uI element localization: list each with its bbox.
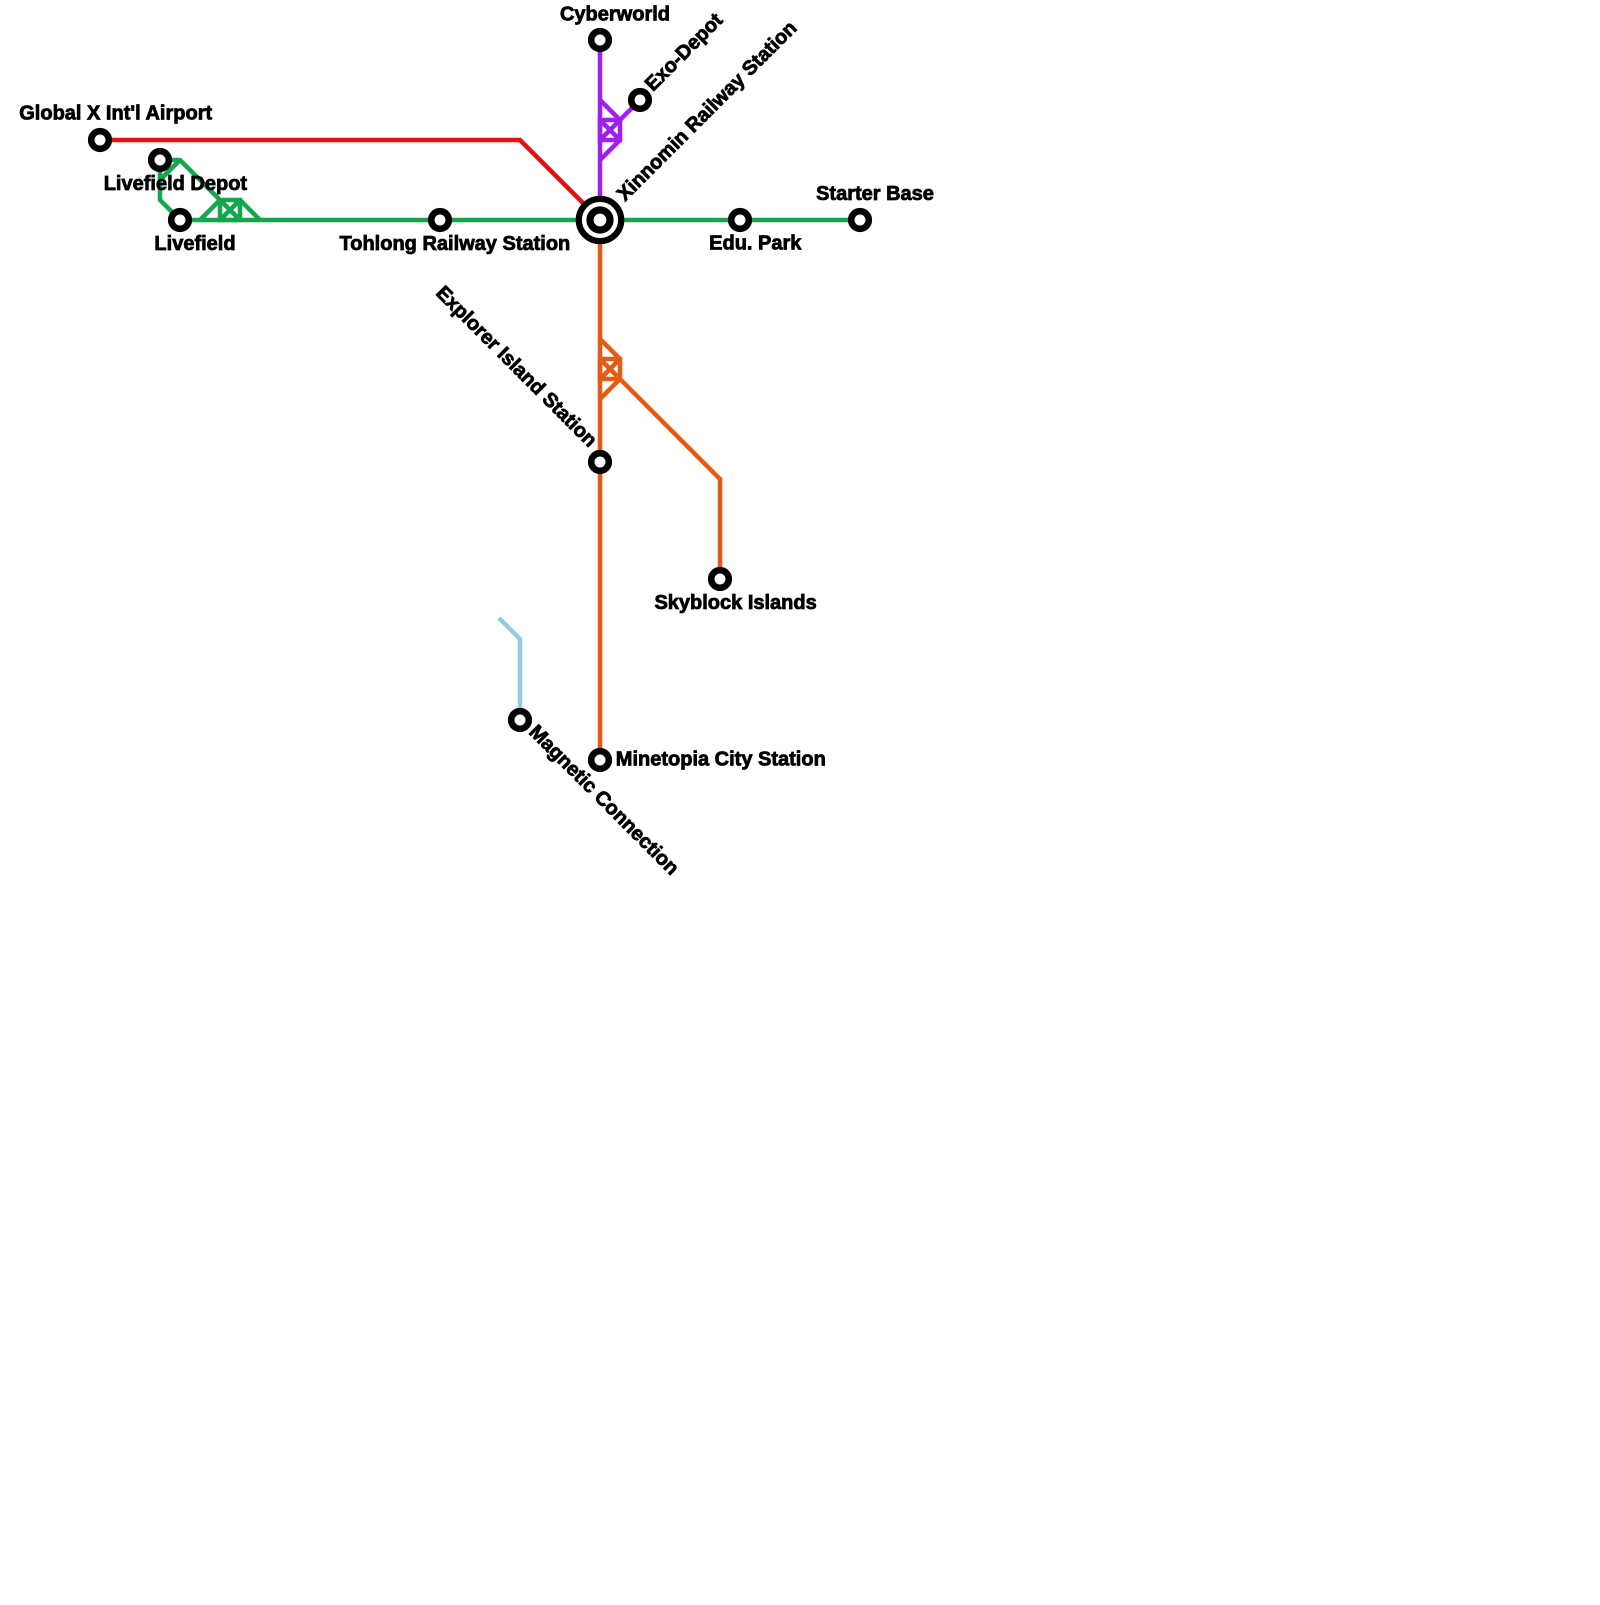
station Magnetic Connection xyxy=(511,711,529,729)
orange yard top flare xyxy=(600,339,620,359)
station Edu. Park xyxy=(731,211,749,229)
green yard right flare xyxy=(240,200,260,220)
station Livefield xyxy=(171,211,189,229)
svg-text:Explorer Island Station: Explorer Island Station xyxy=(431,282,601,452)
purple yard bottom flare xyxy=(600,140,620,160)
svg-text:Edu. Park: Edu. Park xyxy=(709,233,802,255)
station Tohlong Railway Station xyxy=(431,211,449,229)
orange yard bottom flare xyxy=(600,379,620,399)
station Livefield Depot xyxy=(151,151,169,169)
green depot stub to yard branch xyxy=(160,160,220,200)
purple branch to Exo-Depot xyxy=(620,100,640,120)
station Cyberworld xyxy=(591,31,609,49)
green branch Livefield to Livefield Depot xyxy=(160,160,180,220)
svg-text:Skyblock Islands: Skyblock Islands xyxy=(654,592,816,614)
light blue Magnetic Connection line xyxy=(499,618,520,720)
green yard box with X xyxy=(220,200,240,220)
svg-text:Livefield: Livefield xyxy=(154,233,235,255)
purple yard top flare xyxy=(600,100,620,120)
station Exo-Depot xyxy=(631,91,649,109)
svg-text:Magnetic Connection: Magnetic Connection xyxy=(524,721,683,880)
green yard left flare xyxy=(200,200,220,220)
station Minetopia City Station xyxy=(591,751,609,769)
svg-text:Global X Int'l Airport: Global X Int'l Airport xyxy=(19,103,212,125)
station Explorer Island Station xyxy=(591,453,609,471)
svg-text:Cyberworld: Cyberworld xyxy=(560,4,670,26)
red line Airport-Xinnomin xyxy=(100,140,600,220)
purple line Cyberworld-Xinnomin xyxy=(598,40,603,220)
orange main line Xinnomin-Minetopia xyxy=(598,220,603,760)
svg-text:Livefield Depot: Livefield Depot xyxy=(104,173,248,195)
interchange hub Xinnomin Railway Station xyxy=(579,199,621,241)
purple yard box with X xyxy=(600,120,620,140)
orange branch to Skyblock Islands xyxy=(620,379,720,579)
station Skyblock Islands xyxy=(711,570,729,588)
green wye connector xyxy=(160,160,180,180)
green main line Livefield-Starter Base xyxy=(180,218,860,223)
svg-text:Starter Base: Starter Base xyxy=(816,183,934,205)
svg-text:Minetopia City Station: Minetopia City Station xyxy=(616,748,826,770)
orange yard box with X xyxy=(600,359,620,379)
station Global X Int'l Airport xyxy=(91,131,109,149)
svg-text:Tohlong Railway Station: Tohlong Railway Station xyxy=(340,233,571,255)
station Starter Base xyxy=(851,211,869,229)
